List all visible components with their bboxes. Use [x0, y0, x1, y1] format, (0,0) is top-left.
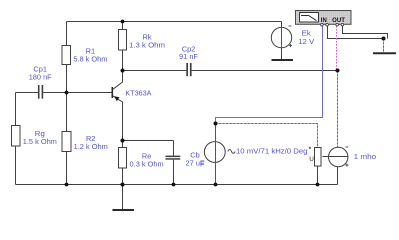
svg-text:U: U: [309, 156, 314, 163]
svg-text:1.3 k Ohm: 1.3 k Ohm: [129, 41, 165, 50]
svg-text:KT363A: KT363A: [125, 89, 151, 98]
svg-text:1.2 k Ohm: 1.2 k Ohm: [74, 142, 108, 151]
svg-text:1 mho: 1 mho: [354, 152, 377, 161]
svg-text:5.8 k Ohm: 5.8 k Ohm: [73, 55, 107, 64]
svg-text:180 nF: 180 nF: [29, 72, 52, 81]
svg-text:0.3 k Ohm: 0.3 k Ohm: [130, 159, 164, 168]
svg-text:F: F: [200, 159, 205, 168]
svg-text:OUT: OUT: [332, 18, 345, 24]
svg-text:10 mV/71 kHz/0 Deg: 10 mV/71 kHz/0 Deg: [236, 146, 308, 155]
svg-text:12 V: 12 V: [298, 37, 314, 46]
svg-text:1.5 k Ohm: 1.5 k Ohm: [23, 137, 57, 146]
svg-text:91 nF: 91 nF: [179, 52, 198, 61]
